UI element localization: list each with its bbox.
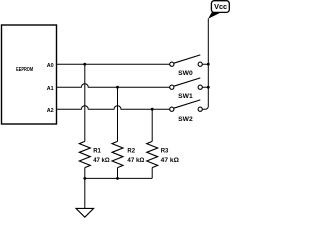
- svg-text:A0: A0: [47, 63, 54, 69]
- svg-text:SW0: SW0: [178, 70, 193, 77]
- svg-text:A1: A1: [47, 86, 54, 92]
- svg-text:47 kΩ: 47 kΩ: [93, 158, 110, 164]
- svg-text:47 kΩ: 47 kΩ: [161, 158, 179, 164]
- svg-text:SW2: SW2: [178, 116, 193, 123]
- svg-text:SW1: SW1: [178, 93, 193, 100]
- svg-text:A2: A2: [47, 108, 54, 114]
- svg-text:EEPROM: EEPROM: [16, 67, 33, 73]
- svg-text:R2: R2: [127, 149, 135, 155]
- svg-text:47 kΩ: 47 kΩ: [127, 158, 144, 164]
- svg-text:R3: R3: [161, 149, 169, 155]
- svg-text:Vcc: Vcc: [214, 2, 227, 11]
- svg-text:R1: R1: [93, 149, 101, 155]
